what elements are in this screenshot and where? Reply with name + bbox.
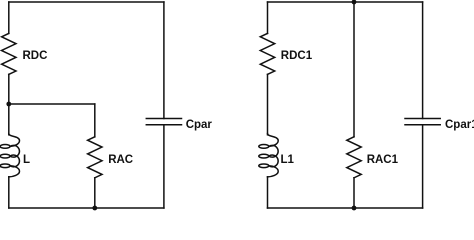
resistor RAC1 xyxy=(347,137,361,178)
label RAC1 xyxy=(367,154,399,166)
svg-text:L: L xyxy=(23,154,30,166)
wire node to RAC branch horizontal xyxy=(9,103,95,105)
label RDC xyxy=(23,50,48,62)
wire left rail upper (top to RDC) xyxy=(8,2,10,33)
wire RAC branch upper xyxy=(94,104,96,137)
wire node to coil xyxy=(8,104,10,135)
wire RAC1 branch upper xyxy=(353,2,355,137)
svg-text:Cpar1: Cpar1 xyxy=(445,119,474,131)
label L1 xyxy=(281,154,295,166)
label RAC xyxy=(108,154,133,166)
wire RAC1 branch lower xyxy=(353,178,355,208)
wire top right circuit xyxy=(268,1,423,3)
svg-text:L1: L1 xyxy=(281,154,295,166)
wire top left circuit xyxy=(9,1,164,3)
label Cpar xyxy=(186,119,213,131)
capacitor Cpar1 xyxy=(405,119,440,125)
svg-text:RAC1: RAC1 xyxy=(367,154,399,166)
wire right rail lower right circuit xyxy=(422,125,424,208)
junction dot RAC1 top xyxy=(352,0,357,4)
label Cpar1 xyxy=(445,119,474,131)
svg-text:RAC: RAC xyxy=(108,154,133,166)
wire right rail upper left circuit xyxy=(163,2,165,119)
wire left rail middle (RDC to node) xyxy=(8,74,10,104)
inductor L1 xyxy=(259,134,278,177)
junction dot RAC1 bottom xyxy=(352,206,357,211)
svg-text:RDC1: RDC1 xyxy=(281,50,313,62)
wire coil to bottom right circuit xyxy=(267,177,269,208)
label L xyxy=(23,154,30,166)
svg-text:Cpar: Cpar xyxy=(186,119,213,131)
label RDC1 xyxy=(281,50,313,62)
capacitor Cpar xyxy=(146,119,181,125)
resistor RDC1 xyxy=(260,33,274,74)
wire bottom right circuit xyxy=(268,207,423,209)
wire left rail upper right circuit xyxy=(267,2,269,33)
wire RAC branch lower xyxy=(94,178,96,208)
wire bottom left circuit xyxy=(9,207,164,209)
junction node dot left circuit xyxy=(6,102,11,107)
wire coil to bottom xyxy=(8,177,10,208)
inductor L xyxy=(0,134,19,177)
svg-text:RDC: RDC xyxy=(23,50,48,62)
junction dot RAC bottom xyxy=(92,206,97,211)
wire right rail upper right circuit xyxy=(422,2,424,119)
resistor RAC xyxy=(88,137,102,178)
resistor RDC xyxy=(2,33,16,74)
wire left rail middle right circuit xyxy=(267,74,269,134)
wire right rail lower left circuit xyxy=(163,125,165,208)
